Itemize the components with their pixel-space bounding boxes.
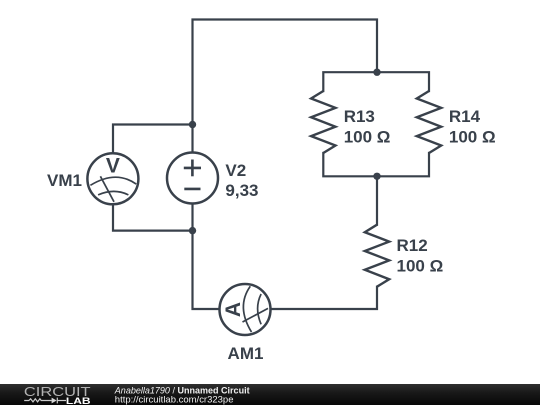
resistor R14	[417, 91, 441, 153]
wire V2 top lead	[191, 125, 193, 153]
wire V2 bottom lead	[191, 204, 193, 231]
resistor R12	[365, 225, 389, 287]
wire ammeter to R12 bottom	[271, 287, 377, 309]
wire parallel bottom rail	[323, 153, 429, 176]
svg-text:9,33: 9,33	[225, 181, 258, 200]
svg-text:100 Ω: 100 Ω	[397, 257, 444, 276]
svg-text:http://circuitlab.com/cr323pe: http://circuitlab.com/cr323pe	[115, 394, 234, 405]
wire VM1 bottom branch	[113, 204, 193, 230]
node junction parallel top	[373, 69, 380, 76]
node junction parallel bottom	[373, 173, 380, 180]
svg-text:R12: R12	[397, 236, 428, 255]
CircuitLab logo motif wire-resistor-diode	[24, 398, 66, 404]
svg-text:100 Ω: 100 Ω	[344, 128, 391, 147]
resistor R13	[311, 91, 335, 153]
svg-text:R13: R13	[344, 107, 375, 126]
svg-text:VM1: VM1	[47, 171, 82, 190]
wire top rail from left branch to right branch	[193, 20, 378, 125]
svg-text:R14: R14	[449, 107, 481, 126]
svg-text:100 Ω: 100 Ω	[449, 128, 496, 147]
svg-text:LAB: LAB	[66, 396, 91, 405]
wire VM1 top branch	[113, 125, 193, 154]
wire R12 top lead	[376, 176, 378, 224]
svg-text:V: V	[106, 155, 120, 178]
voltmeter VM1	[87, 153, 138, 204]
wire parallel top rail	[323, 72, 429, 91]
voltage source V2	[167, 153, 218, 204]
svg-text:V2: V2	[225, 161, 246, 180]
ammeter AM1	[220, 284, 271, 335]
svg-text:AM1: AM1	[228, 344, 264, 363]
wire left vertical down to ammeter	[193, 231, 220, 309]
node junction top-left	[189, 121, 196, 128]
svg-text:A: A	[222, 302, 245, 317]
node junction bottom-left	[189, 227, 196, 234]
